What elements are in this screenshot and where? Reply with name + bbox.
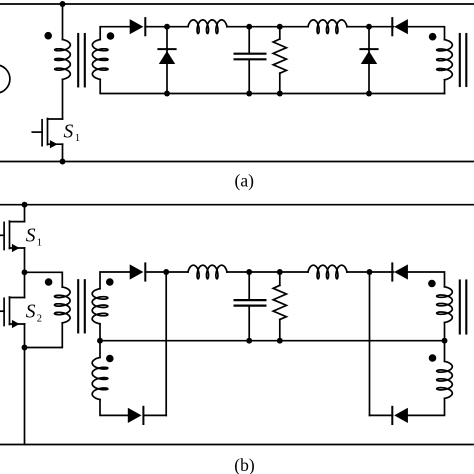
node D1 cathode junction: [164, 24, 170, 30]
transformer T3 upper secondary winding: [92, 289, 108, 324]
transistor S1 arrow: [50, 140, 58, 148]
diode D6: [128, 407, 144, 424]
wire D5 to L3: [145, 271, 188, 273]
wire S1b source down: [24, 248, 26, 272]
svg-text:1: 1: [75, 133, 80, 144]
wire T2 bottom: [444, 80, 446, 94]
node D4 cathode junction: [366, 24, 372, 30]
transformer T2 core: [460, 34, 467, 86]
diode D3: [158, 49, 175, 64]
node R2 bottom junction: [277, 338, 283, 344]
wire secondary upper top (b): [100, 272, 130, 289]
wire bottom rail (b): [0, 444, 474, 446]
label (b): [234, 455, 255, 474]
transformer T1 secondary dot: [107, 32, 115, 40]
resistor R1: [273, 27, 286, 94]
wire T4 lower to D8: [408, 398, 445, 415]
transistor S1 gate lead: [32, 131, 42, 133]
diode D4: [360, 49, 377, 64]
wire top rail (a): [0, 3, 474, 5]
wire S1 source to rail: [62, 144, 64, 161]
transformer T4 upper winding: [437, 287, 453, 323]
inductor L3: [188, 265, 227, 279]
wire T4 upper to tap: [444, 323, 446, 341]
transistor S1 channel: [47, 119, 49, 145]
inductor L1: [188, 20, 227, 34]
node D4 anode junction: [366, 91, 372, 97]
wire lower secondary to D6: [100, 400, 128, 416]
wire center tap line (b): [100, 340, 445, 342]
node T4 center tap: [442, 338, 448, 344]
wire D2 to T2: [408, 27, 445, 40]
transformer T2 winding: [437, 40, 453, 80]
label S2: [26, 302, 42, 325]
node R1 top junction: [277, 24, 283, 30]
label (a): [235, 171, 255, 191]
transformer T3 lower secondary winding: [92, 357, 108, 399]
transistor S2 source lead: [10, 323, 25, 325]
transformer T3 lower secondary dot: [106, 355, 114, 363]
transformer T3 primary dot: [45, 278, 53, 286]
node D7 junction: [367, 269, 373, 275]
wire D6 to riser: [143, 414, 166, 416]
wire D8 to riser: [370, 414, 393, 416]
node C1 top junction: [246, 24, 252, 30]
transformer T1 primary winding: [55, 40, 71, 80]
wire primary drop (a): [62, 4, 64, 40]
transistor S1b arrow: [12, 244, 20, 252]
svg-text:(a): (a): [235, 171, 255, 191]
transistor S1b drain lead: [10, 221, 25, 223]
inductor L2: [308, 20, 347, 34]
transistor S1b channel: [9, 221, 11, 248]
node C2 bottom junction: [246, 338, 252, 344]
resistor R2: [273, 272, 286, 341]
transistor S1 gate plate: [41, 120, 43, 146]
wire tap to lower winding: [99, 341, 101, 358]
svg-text:(b): (b): [234, 455, 255, 474]
transistor S1b source lead: [10, 247, 25, 249]
wire L1 to C1: [227, 26, 308, 28]
wire tap to T4 lower: [444, 341, 446, 362]
transistor S2 arrow: [12, 320, 20, 328]
wire L2 to D2: [347, 26, 394, 28]
node S1 drain junction (b): [22, 202, 28, 208]
transformer T1 core: [78, 34, 85, 86]
wire S2b drain drop: [24, 272, 26, 297]
wire bottom rail (a): [0, 161, 474, 163]
node R1 bottom junction: [277, 91, 283, 97]
transformer T4 lower dot: [429, 354, 437, 362]
wire S2 to bottom rail: [24, 348, 26, 445]
capacitor C2: [235, 272, 266, 341]
transformer T3 upper secondary dot: [106, 278, 114, 286]
inductor L4: [308, 265, 347, 279]
wire D1 to L1: [145, 26, 188, 28]
wire L3 to C2: [227, 271, 308, 273]
wire D6 riser: [165, 272, 167, 415]
transformer T4 lower winding: [437, 361, 453, 398]
node D5 cathode junction: [163, 269, 169, 275]
wire S1 drain drop (b): [24, 205, 26, 222]
node D3 anode junction: [164, 91, 170, 97]
diode D1: [130, 18, 146, 35]
node center tap (b): [97, 338, 103, 344]
diode D2: [392, 18, 408, 35]
transformer T1 secondary winding: [92, 40, 108, 80]
svg-text:S: S: [26, 226, 36, 247]
transformer T2 dot: [429, 33, 437, 41]
transformer T3 core: [78, 280, 85, 332]
transistor S2 drain lead: [10, 297, 25, 299]
wire L4 to D7: [347, 271, 394, 273]
wire secondary bottom (a): [100, 79, 444, 93]
wire primary top (b): [25, 272, 63, 287]
wire D7 to T4: [408, 272, 445, 287]
transistor S1b gate lead: [0, 234, 4, 236]
wire freewheel diode D4 branch: [368, 27, 370, 94]
wire secondary top (a): [100, 27, 130, 40]
transistor S2 channel: [9, 297, 11, 325]
node S1 source junction: [60, 159, 66, 165]
wire S2 source down: [24, 324, 26, 348]
diode D8: [392, 407, 408, 424]
label S1b: [26, 226, 42, 249]
svg-text:1: 1: [37, 238, 42, 249]
wire top rail (b): [0, 204, 474, 206]
node S1b-S2b junction: [22, 269, 28, 275]
svg-text:S: S: [64, 122, 74, 143]
node C2 top junction: [246, 269, 252, 275]
capacitor C1: [235, 27, 266, 94]
wire D7-D8 riser: [369, 272, 371, 415]
wire freewheel diode D3 branch: [166, 27, 168, 94]
node C1 bottom junction: [246, 91, 252, 97]
transistor S2 gate plate: [3, 298, 5, 325]
svg-text:S: S: [26, 302, 36, 323]
transistor S1 drain lead: [48, 118, 63, 120]
transformer T4 upper dot: [428, 280, 436, 288]
source V1: [0, 65, 10, 93]
svg-text:2: 2: [37, 314, 42, 325]
diode D7: [392, 263, 408, 280]
wire primary bottom (b): [25, 323, 63, 348]
transformer T1 primary dot: [44, 32, 52, 40]
transistor S1 source lead: [48, 143, 63, 145]
transistor S2 gate lead: [0, 310, 4, 312]
transformer T4 core: [460, 281, 467, 334]
node S2 source junction: [22, 345, 28, 351]
node top junction (a): [60, 1, 66, 7]
diode D5: [130, 263, 146, 280]
transformer T3 primary winding: [55, 287, 71, 323]
node R2 top junction: [277, 269, 283, 275]
wire upper secondary to tap: [99, 324, 101, 341]
wire primary to drain (a): [62, 79, 64, 119]
label S1: [64, 122, 81, 145]
transistor S1b gate plate: [3, 222, 5, 249]
